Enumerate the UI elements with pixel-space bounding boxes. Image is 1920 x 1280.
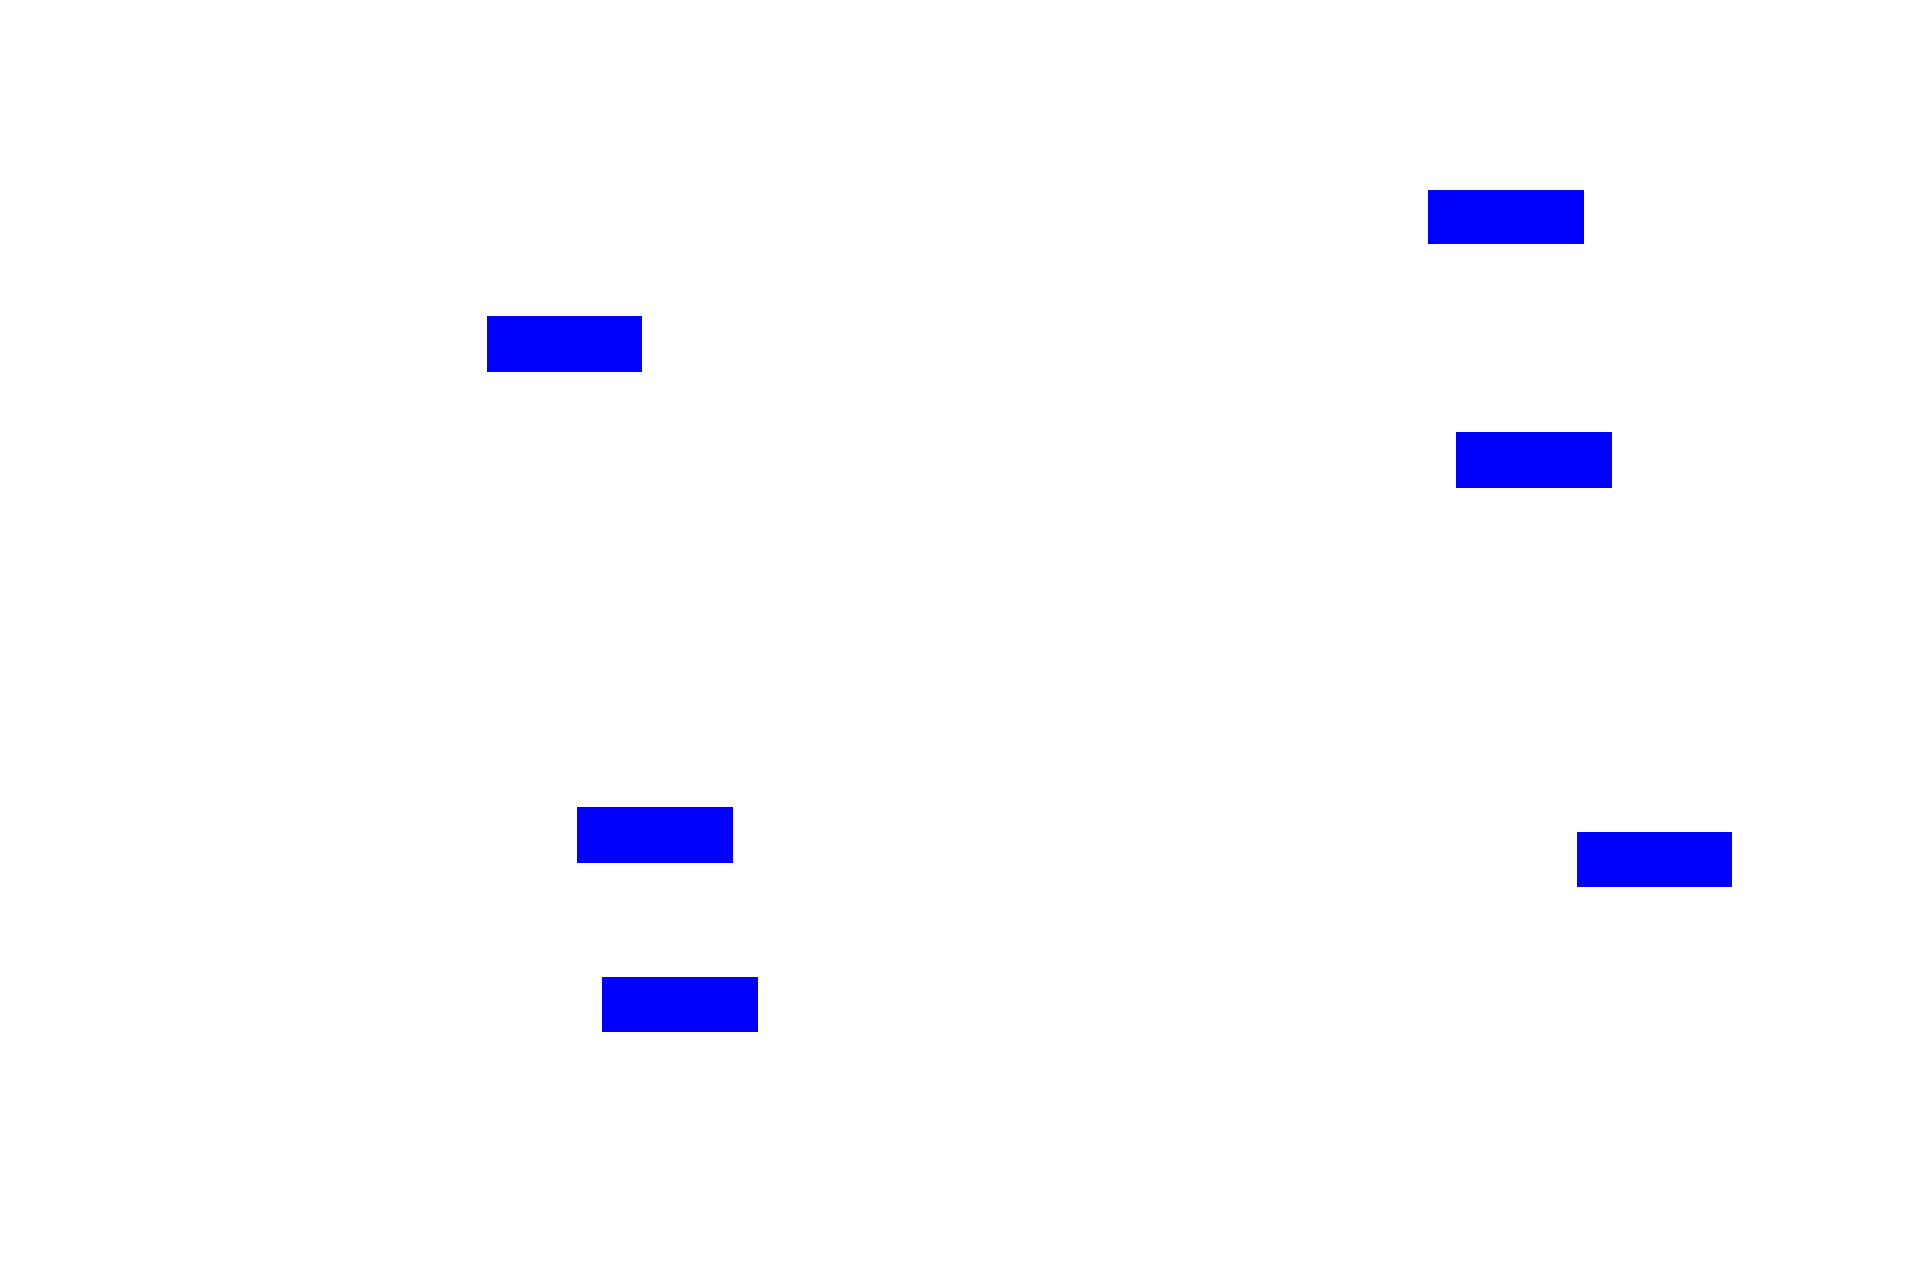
- blue rectangle 2 (upper left): [487, 316, 642, 372]
- blue rectangle 1 (top right): [1428, 190, 1584, 244]
- blue rectangle 4 (lower left upper): [577, 807, 733, 863]
- blue rectangle 3 (middle right): [1456, 432, 1612, 488]
- blue rectangle 6 (lower left lower): [602, 977, 758, 1032]
- blue rectangle 5 (lower right): [1577, 832, 1732, 887]
